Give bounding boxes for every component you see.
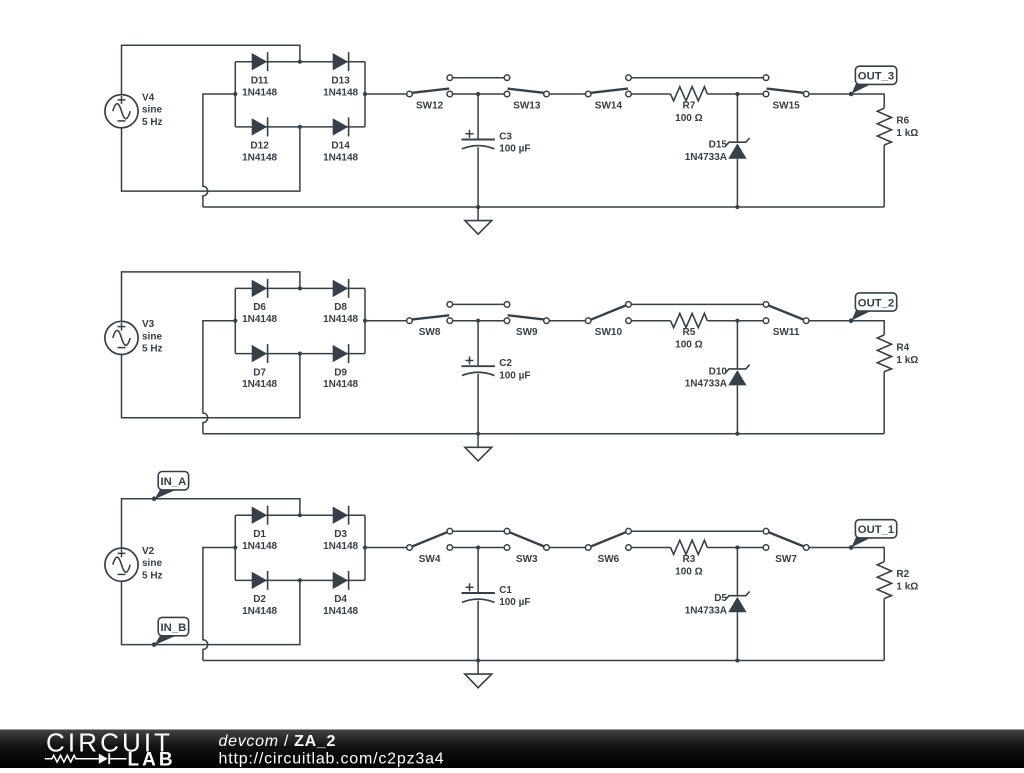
svg-text:D13: D13: [331, 75, 350, 86]
svg-text:1N4148: 1N4148: [242, 87, 277, 98]
wire SW7 to load R2: [806, 548, 884, 562]
label R4 value: [896, 342, 918, 366]
svg-text:D8: D8: [334, 302, 347, 313]
junction C1 tap: [476, 545, 480, 549]
svg-text:IN_B: IN_B: [161, 622, 187, 634]
wire C3 bottom lead: [477, 147, 479, 207]
junction OUT_1 tap: [849, 545, 853, 549]
svg-text:SW6: SW6: [598, 554, 620, 565]
svg-text:1N4148: 1N4148: [323, 153, 358, 164]
junction bridge bottom AC node: [298, 578, 302, 582]
svg-text:1 kΩ: 1 kΩ: [896, 582, 918, 593]
wire R2 bottom to ground rail: [883, 599, 885, 661]
svg-text:SW11: SW11: [773, 327, 800, 338]
label R3 value: [675, 554, 702, 578]
wire bridge left edge: [234, 288, 236, 353]
wire bypass SW8-SW9: [450, 303, 507, 305]
junction bridge left node: [233, 545, 237, 549]
resistor R2: [877, 562, 891, 599]
wire D15 bottom lead: [736, 159, 738, 207]
svg-text:V4: V4: [142, 92, 155, 103]
zener diode D5: [725, 592, 749, 613]
wire bridge output to SW8: [365, 320, 410, 322]
svg-text:C1: C1: [499, 585, 512, 596]
svg-text:C3: C3: [499, 131, 512, 142]
wire C1 bottom lead: [477, 601, 479, 661]
wire V2 top to bridge top-branch node: [122, 499, 300, 548]
diode D1: [252, 506, 268, 525]
svg-text:sine: sine: [142, 105, 162, 116]
svg-text:devcom / ZA_2: devcom / ZA_2: [219, 733, 337, 750]
svg-text:http://circuitlab.com/c2pz3a4: http://circuitlab.com/c2pz3a4: [219, 751, 445, 768]
label D14 value: [323, 141, 358, 164]
junction D5 ground node: [735, 658, 739, 662]
wire ground rail: [203, 660, 884, 662]
junction D10 ground node: [735, 432, 739, 436]
wire V4 top to bridge top-branch node: [122, 45, 300, 94]
svg-text:D10: D10: [709, 366, 728, 377]
wire R4 bottom to ground rail: [883, 372, 885, 434]
wire V3 bottom to bridge bottom-branch node: [122, 354, 300, 418]
switch SW3: [504, 528, 549, 550]
wire bridge bottom branch: [235, 353, 365, 355]
svg-text:1 kΩ: 1 kΩ: [896, 128, 918, 139]
wire ground rail: [203, 433, 884, 435]
svg-text:D12: D12: [250, 141, 269, 152]
label D7 value: [242, 367, 277, 390]
node OUT_3 flag: [849, 66, 897, 96]
svg-text:1N4148: 1N4148: [323, 314, 358, 325]
label D6 value: [242, 302, 277, 325]
svg-text:100 µF: 100 µF: [499, 597, 530, 608]
junction C3 tap: [476, 92, 480, 96]
svg-text:IN_A: IN_A: [161, 476, 187, 488]
junction bridge right node: [363, 545, 367, 549]
voltage source V3: [105, 321, 138, 354]
svg-text:OUT_1: OUT_1: [858, 524, 894, 536]
voltage source V2: [105, 548, 138, 581]
svg-text:R5: R5: [683, 327, 696, 338]
junction bridge bottom AC node: [298, 352, 302, 356]
wire bypass SW6-SW7: [629, 530, 767, 532]
wire bridge right edge: [364, 515, 366, 580]
svg-text:D2: D2: [253, 594, 266, 605]
label D10 value: [685, 366, 728, 389]
resistor R7: [671, 87, 708, 101]
junction bridge bottom AC node: [298, 125, 302, 129]
label R2 value: [896, 569, 918, 593]
switch SW14: [585, 75, 631, 97]
junction C1 ground node: [476, 658, 480, 662]
wire SW6 through R3 to SW7: [629, 547, 671, 549]
label R5 value: [675, 327, 702, 351]
switch SW8: [407, 302, 453, 324]
junction bridge top AC node: [298, 286, 302, 290]
wire C2 top lead: [477, 321, 479, 367]
label C2 value: [499, 358, 530, 381]
svg-text:D11: D11: [251, 75, 269, 86]
wire V2 bottom to bridge bottom-branch node: [122, 580, 300, 644]
svg-text:1N4148: 1N4148: [323, 379, 358, 390]
diode D14: [333, 117, 349, 136]
label D3 value: [323, 529, 358, 552]
svg-text:100 Ω: 100 Ω: [675, 113, 702, 124]
switch SW13: [504, 75, 549, 97]
junction OUT_3 tap: [849, 92, 853, 96]
node IN_A flag: [152, 472, 189, 502]
switch SW6: [585, 528, 631, 550]
junction D15 top node: [735, 92, 739, 96]
svg-text:D4: D4: [334, 594, 347, 605]
svg-text:R3: R3: [683, 554, 696, 565]
label V2 value: [142, 546, 163, 581]
wire bridge top branch: [235, 514, 365, 516]
junction C2 tap: [476, 319, 480, 323]
junction bridge right node: [363, 319, 367, 323]
diode D13: [333, 52, 349, 71]
svg-text:SW13: SW13: [513, 101, 541, 112]
ground: [465, 661, 492, 688]
svg-text:D5: D5: [714, 593, 727, 604]
wire C3 top lead: [477, 94, 479, 140]
svg-text:R4: R4: [896, 342, 909, 353]
label D15 value: [685, 140, 728, 163]
svg-text:1N4148: 1N4148: [242, 153, 277, 164]
svg-text:SW15: SW15: [772, 101, 800, 112]
junction C2 ground node: [476, 432, 480, 436]
svg-text:5 Hz: 5 Hz: [142, 570, 163, 581]
wire C2 bottom lead: [477, 374, 479, 434]
switch SW9: [504, 302, 549, 324]
svg-text:SW9: SW9: [516, 327, 538, 338]
svg-text:1N4148: 1N4148: [323, 541, 358, 552]
wire bridge right edge: [364, 288, 366, 353]
wire D15 top lead: [736, 94, 738, 142]
svg-text:1N4733A: 1N4733A: [685, 152, 727, 163]
svg-text:D1: D1: [253, 529, 266, 540]
label D1 value: [242, 529, 277, 552]
resistor R6: [877, 108, 891, 145]
svg-text:D3: D3: [334, 529, 347, 540]
label R7 value: [675, 100, 702, 124]
junction C3 ground node: [476, 205, 480, 209]
junction bridge left node: [233, 92, 237, 96]
svg-text:SW12: SW12: [416, 101, 444, 112]
label R6 value: [896, 116, 918, 140]
svg-text:R2: R2: [896, 569, 909, 580]
wire SW3 to SW6: [547, 547, 589, 549]
wire bridge right edge: [364, 62, 366, 127]
ground: [465, 434, 492, 461]
switch SW15: [763, 75, 809, 97]
junction bridge top AC node: [298, 60, 302, 64]
resistor R4: [877, 335, 891, 372]
svg-text:100 Ω: 100 Ω: [675, 340, 702, 351]
svg-text:1N4148: 1N4148: [242, 314, 277, 325]
junction bridge top AC node: [298, 513, 302, 517]
svg-text:D9: D9: [334, 367, 347, 378]
svg-text:1N4148: 1N4148: [242, 541, 277, 552]
wire bridge left edge: [234, 62, 236, 127]
label D12 value: [242, 141, 277, 164]
diode D12: [252, 117, 268, 136]
diode D2: [252, 571, 268, 590]
wire bridge bottom branch: [235, 126, 365, 128]
capacitor C3: [462, 130, 495, 149]
zener diode D15: [725, 138, 749, 159]
wire SW9 to SW10: [547, 320, 589, 322]
voltage source V4: [105, 95, 138, 128]
capacitor C2: [462, 357, 495, 376]
wire SW14 through R7 to SW15: [629, 93, 671, 95]
wire SW11 to load R4: [806, 321, 884, 335]
svg-text:5 Hz: 5 Hz: [142, 117, 163, 128]
wire SW10 through R5 to SW11: [629, 320, 671, 322]
label D13 value: [323, 75, 358, 98]
label D8 value: [323, 302, 358, 325]
wire bridge left node to ground rail (with hop): [203, 94, 235, 207]
svg-text:D6: D6: [253, 302, 266, 313]
wire SW12 to SW13 with C3 tap: [450, 93, 507, 95]
resistor R3: [671, 540, 708, 554]
wire bridge top branch: [235, 61, 365, 63]
diode D8: [333, 279, 349, 298]
svg-text:OUT_2: OUT_2: [858, 297, 894, 309]
diode D9: [333, 344, 349, 363]
svg-text:D14: D14: [331, 141, 350, 152]
svg-text:D7: D7: [253, 367, 266, 378]
wire bridge output to SW4: [365, 547, 410, 549]
svg-text:OUT_3: OUT_3: [858, 71, 894, 83]
label D11 value: [242, 75, 277, 98]
svg-text:V3: V3: [142, 319, 155, 330]
svg-text:5 Hz: 5 Hz: [142, 344, 163, 355]
label D9 value: [323, 367, 358, 390]
wire bypass SW12-SW13: [450, 77, 507, 79]
junction D10 top node: [735, 319, 739, 323]
svg-text:100 Ω: 100 Ω: [675, 566, 702, 577]
svg-text:D15: D15: [709, 140, 728, 151]
label D4 value: [323, 594, 358, 617]
diode D6: [252, 279, 268, 298]
node OUT_2 flag: [849, 293, 897, 323]
svg-text:1N4148: 1N4148: [323, 87, 358, 98]
svg-text:1N4148: 1N4148: [323, 606, 358, 617]
wire bypass SW14-SW15: [629, 77, 767, 79]
junction D5 top node: [735, 545, 739, 549]
wire V3 top to bridge top-branch node: [122, 272, 300, 321]
svg-text:SW8: SW8: [419, 327, 441, 338]
node OUT_1 flag: [849, 520, 897, 550]
capacitor C1: [462, 583, 495, 602]
label V4 value: [142, 92, 163, 127]
wire V4 bottom to bridge bottom-branch node: [122, 127, 300, 191]
wire SW8 to SW9 with C2 tap: [450, 320, 507, 322]
wire ground rail: [203, 206, 884, 208]
svg-text:1 kΩ: 1 kΩ: [896, 355, 918, 366]
wire C1 top lead: [477, 548, 479, 594]
junction bridge left node: [233, 319, 237, 323]
wire bridge top branch: [235, 287, 365, 289]
switch SW10: [585, 302, 631, 324]
svg-text:sine: sine: [142, 331, 162, 342]
resistor R5: [671, 313, 708, 327]
CircuitLab logo resistor-diode glyph: [45, 753, 127, 764]
svg-text:sine: sine: [142, 558, 162, 569]
svg-text:1N4733A: 1N4733A: [685, 605, 727, 616]
wire bridge bottom branch: [235, 579, 365, 581]
wire D10 bottom lead: [736, 385, 738, 433]
wire bypass SW4-SW3: [450, 530, 507, 532]
svg-text:1N4733A: 1N4733A: [685, 379, 727, 390]
svg-text:SW14: SW14: [595, 101, 623, 112]
wire bridge left edge: [234, 515, 236, 580]
svg-text:V2: V2: [142, 546, 155, 557]
wire SW4 to SW3 with C1 tap: [450, 547, 507, 549]
diode D7: [252, 344, 268, 363]
wire D5 bottom lead: [736, 612, 738, 660]
svg-text:LAB: LAB: [128, 749, 176, 768]
zener diode D10: [725, 365, 749, 386]
svg-text:1N4148: 1N4148: [242, 379, 277, 390]
label C1 value: [499, 585, 530, 608]
label V3 value: [142, 319, 163, 354]
wire SW15 to load R6: [806, 94, 884, 108]
wire bypass SW10-SW11: [629, 303, 767, 305]
svg-text:100 µF: 100 µF: [499, 370, 530, 381]
svg-text:1N4148: 1N4148: [242, 606, 277, 617]
svg-text:R6: R6: [896, 116, 909, 127]
svg-text:100 µF: 100 µF: [499, 144, 530, 155]
wire R6 bottom to ground rail: [883, 145, 885, 207]
wire D5 top lead: [736, 548, 738, 596]
junction bridge right node: [363, 92, 367, 96]
diode D4: [333, 571, 349, 590]
label D5 value: [685, 593, 728, 616]
wire bridge left node to ground rail (with hop): [203, 548, 235, 661]
switch SW7: [763, 528, 809, 550]
wire SW13 to SW14: [547, 93, 589, 95]
diode D3: [333, 506, 349, 525]
wire bridge output to SW12: [365, 93, 410, 95]
junction OUT_2 tap: [849, 319, 853, 323]
diode D11: [252, 52, 268, 71]
svg-text:R7: R7: [683, 100, 696, 111]
label C3 value: [499, 131, 530, 154]
switch SW12: [407, 75, 453, 97]
junction D15 ground node: [735, 205, 739, 209]
svg-text:SW3: SW3: [516, 554, 538, 565]
node IN_B flag: [152, 617, 189, 646]
svg-text:SW4: SW4: [419, 554, 441, 565]
svg-text:SW7: SW7: [775, 554, 797, 565]
wire D10 top lead: [736, 321, 738, 369]
switch SW11: [763, 302, 809, 324]
switch SW4: [407, 528, 453, 550]
svg-text:SW10: SW10: [595, 327, 623, 338]
wire bridge left node to ground rail (with hop): [203, 321, 235, 434]
svg-text:C2: C2: [499, 358, 512, 369]
ground: [465, 207, 492, 234]
label D2 value: [242, 594, 277, 617]
